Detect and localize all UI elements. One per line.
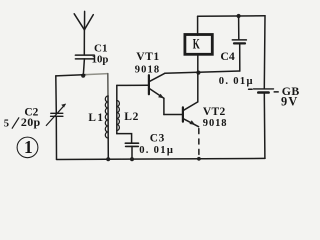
wire VT2 base lead [164, 114, 182, 116]
capacitor C2 (variable) [4, 104, 66, 130]
wire C1 to junction [83, 59, 84, 76]
relay K [185, 16, 212, 54]
capacitor C4 [219, 16, 254, 87]
wire VT2 emitter dashed [198, 129, 200, 159]
inductor L2 [117, 85, 139, 143]
node collector junction [196, 71, 200, 75]
antenna [74, 11, 93, 29]
transistor VT1 [135, 50, 165, 99]
node L1 bottom [106, 157, 110, 161]
svg-text:L2: L2 [124, 111, 139, 123]
svg-text:C4: C4 [220, 49, 235, 63]
battery GB [249, 16, 300, 159]
svg-text:0. 01μ: 0. 01μ [219, 76, 254, 87]
wire left vertical upper [55, 76, 58, 113]
inductor L1 [88, 74, 108, 160]
node antenna junction [81, 74, 85, 78]
capacitor C1 [75, 42, 108, 65]
wire VT1 collector horizontal [165, 71, 240, 73]
wire K bottom to VT2 collector [197, 55, 199, 102]
wire top-left horizontal [56, 75, 86, 76]
svg-text:9018: 9018 [203, 118, 228, 129]
wire antenna stem [83, 30, 85, 55]
node 1 (circled figure label) [17, 137, 38, 158]
wire left vertical lower [55, 116, 57, 159]
svg-text:9V: 9V [281, 95, 298, 109]
node dashed to bottom rail [197, 157, 201, 161]
wire VT1 emitter down [163, 98, 165, 114]
svg-text:9018: 9018 [135, 64, 160, 75]
wire VT1 base lead [117, 84, 148, 86]
svg-text:C3: C3 [150, 133, 165, 145]
wire top rail [198, 15, 265, 17]
svg-text:L1: L1 [88, 112, 104, 124]
transistor VT2 [183, 102, 228, 129]
svg-text:20p: 20p [21, 115, 41, 129]
node C4 top [237, 14, 241, 18]
svg-text:VT2: VT2 [203, 106, 226, 118]
svg-text:0. 01μ: 0. 01μ [139, 145, 174, 156]
svg-text:5: 5 [4, 118, 9, 129]
svg-text:1: 1 [24, 137, 33, 157]
svg-text:K: K [193, 37, 200, 53]
wire bottom rail [57, 158, 266, 159]
capacitor C3 [125, 133, 174, 160]
svg-text:10p: 10p [92, 53, 109, 65]
svg-text:VT1: VT1 [136, 50, 159, 63]
node C3 bottom [130, 157, 134, 161]
